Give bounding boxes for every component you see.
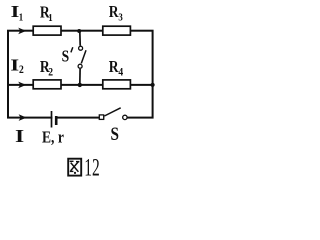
switch S-prime — [79, 46, 83, 50]
wire gap at switch S — [104, 115, 122, 120]
wire gap at battery — [52, 116, 55, 120]
arrow current I2 — [18, 82, 26, 89]
arrow current I1 — [18, 28, 26, 35]
svg-text:S: S — [111, 124, 119, 145]
resistor R1 — [33, 26, 61, 35]
resistor R4 — [103, 80, 131, 89]
battery E,r — [51, 111, 53, 128]
svg-text:I: I — [10, 56, 19, 75]
wire S-prime upper lead — [79, 31, 81, 46]
resistor R2 — [33, 80, 61, 89]
arrow current I — [19, 114, 27, 121]
wire outer loop — [8, 31, 153, 118]
svg-text:12: 12 — [84, 154, 99, 182]
svg-text:E, r: E, r — [42, 128, 64, 147]
svg-text:2: 2 — [48, 66, 53, 79]
svg-text:1: 1 — [19, 11, 23, 23]
switch S — [99, 115, 103, 120]
svg-text:4: 4 — [118, 66, 123, 79]
resistor R3 — [103, 26, 131, 35]
svg-text:3: 3 — [118, 12, 122, 24]
caption figure 12 glyph tu — [68, 159, 81, 176]
svg-text:1: 1 — [48, 12, 52, 24]
node junction top — [77, 29, 81, 33]
svg-text:S: S — [62, 47, 70, 66]
svg-text:2: 2 — [19, 63, 24, 76]
node junction right — [151, 83, 155, 87]
node junction middle — [78, 83, 82, 87]
svg-text:I: I — [15, 127, 24, 146]
wire middle branch — [8, 84, 153, 86]
wire S-prime lower lead — [79, 69, 81, 85]
